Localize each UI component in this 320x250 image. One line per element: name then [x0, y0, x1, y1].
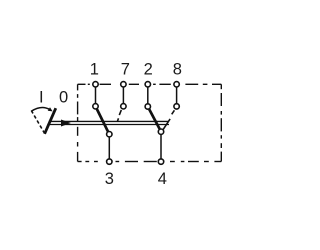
svg-text:1: 1	[90, 61, 99, 79]
svg-text:3: 3	[105, 170, 114, 188]
svg-text:0: 0	[59, 89, 68, 107]
svg-text:8: 8	[173, 61, 182, 79]
svg-text:2: 2	[144, 61, 153, 79]
svg-text:7: 7	[121, 61, 130, 79]
svg-text:I: I	[39, 89, 44, 107]
svg-text:4: 4	[158, 170, 167, 188]
